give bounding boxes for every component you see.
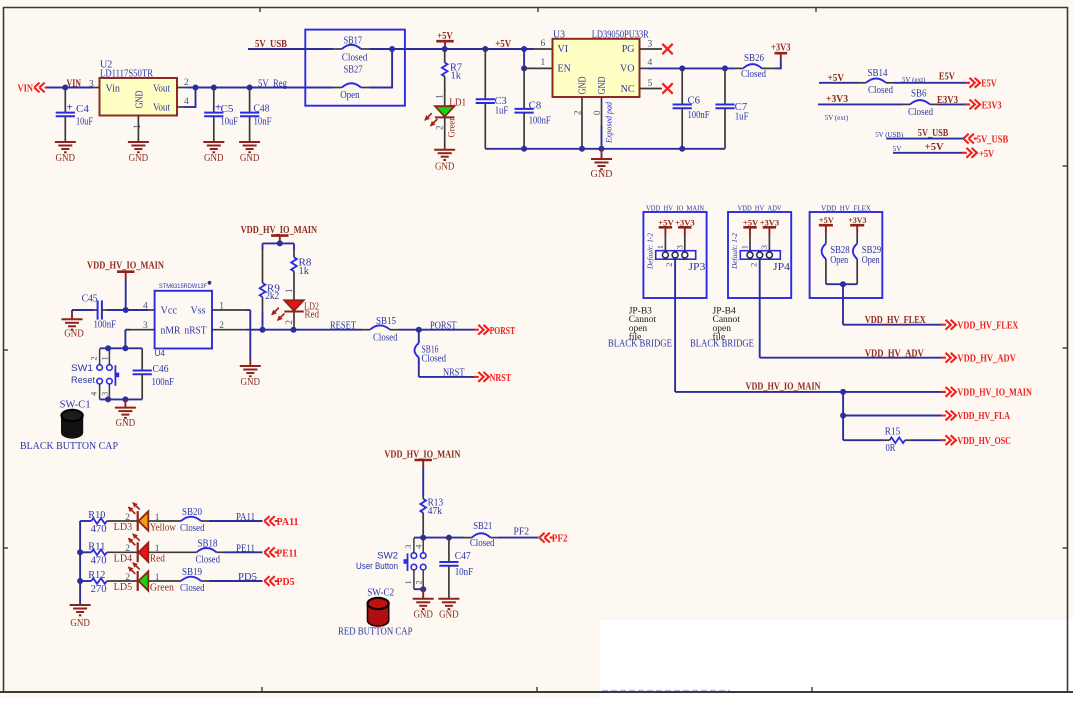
- solder bridge SB21 Closed: [470, 521, 495, 549]
- LED LD3 Yellow: [107, 503, 177, 534]
- node C8 top junction: [521, 46, 527, 52]
- svg-text:VDD_HV_IO_MAIN: VDD_HV_IO_MAIN: [87, 260, 165, 271]
- selection box SB28/SB29: [810, 204, 883, 298]
- svg-text:100nF: 100nF: [688, 110, 710, 121]
- selection box JP4: [728, 204, 791, 298]
- net label VDD_HV_IO_MAIN bus: [746, 382, 822, 393]
- svg-text:3: 3: [89, 79, 94, 89]
- svg-text:+3V3: +3V3: [675, 217, 695, 227]
- net label PE11: [236, 543, 255, 554]
- svg-text:+5V: +5V: [979, 149, 994, 160]
- svg-text:2: 2: [89, 356, 99, 360]
- svg-text:3: 3: [648, 39, 653, 49]
- svg-text:RESET: RESET: [330, 320, 356, 331]
- svg-text:3: 3: [759, 245, 769, 249]
- wire VDD_HV_ADV: [760, 259, 942, 358]
- node VO C7 junction: [722, 65, 728, 71]
- U4 pin 2 nRST wire: [212, 321, 370, 331]
- net label +3V3 row2: [826, 94, 848, 105]
- svg-text:PE11: PE11: [236, 543, 255, 554]
- svg-text:R10: R10: [88, 510, 105, 521]
- power +5V: [436, 31, 453, 49]
- svg-text:RED BUTTON CAP: RED BUTTON CAP: [338, 627, 413, 638]
- svg-text:+3V3: +3V3: [760, 217, 780, 227]
- svg-text:EN: EN: [558, 64, 571, 75]
- svg-text:Closed: Closed: [342, 52, 368, 63]
- node R9 reset junction: [260, 327, 266, 333]
- svg-text:270: 270: [91, 584, 107, 595]
- solder bridge SB18 Closed: [149, 538, 221, 565]
- svg-text:GND: GND: [116, 418, 136, 429]
- net label 5V (USB): [875, 130, 903, 139]
- solder bridge SB28 Open: [822, 244, 850, 267]
- svg-text:+3V3: +3V3: [771, 42, 791, 53]
- node C3 junction: [482, 46, 488, 52]
- svg-text:3: 3: [403, 545, 413, 549]
- svg-text:GND: GND: [204, 153, 224, 164]
- svg-text:GND: GND: [70, 618, 90, 629]
- svg-text:1k: 1k: [299, 266, 310, 277]
- node nMR junction: [122, 345, 128, 351]
- svg-text:VDD_HV_FLEX: VDD_HV_FLEX: [957, 321, 1018, 332]
- svg-text:SW2: SW2: [377, 550, 398, 561]
- solder bridge SB19 Closed: [149, 567, 205, 594]
- node R13 junction: [420, 535, 426, 541]
- label Default 1-2 JP4: [730, 233, 739, 270]
- port VIN: [18, 83, 48, 95]
- svg-text:GND: GND: [413, 610, 433, 621]
- svg-text:R15: R15: [885, 426, 901, 437]
- svg-text:E3V3: E3V3: [937, 95, 958, 106]
- pin 3 of U2: [89, 79, 94, 89]
- wire VDD_HV_FLEX: [843, 284, 942, 325]
- svg-text:5V: 5V: [893, 144, 903, 153]
- svg-text:Vcc: Vcc: [161, 306, 178, 317]
- node R12 junction: [77, 578, 83, 584]
- svg-text:GND: GND: [240, 153, 260, 164]
- svg-text:5V_Reg: 5V_Reg: [258, 78, 287, 89]
- svg-text:Open: Open: [830, 255, 848, 266]
- image placeholder JP-B3: [629, 307, 657, 343]
- net label VIN: [67, 78, 82, 89]
- svg-text:+5V: +5V: [819, 215, 835, 225]
- node EN junction: [521, 65, 527, 71]
- svg-text:BLACK BRIDGE: BLACK BRIDGE: [608, 339, 672, 350]
- svg-text:VDD_HV_ADV: VDD_HV_ADV: [957, 353, 1016, 364]
- ground for C4: [55, 142, 76, 164]
- node PORST junction: [416, 327, 422, 333]
- power +5V in JP4: [743, 217, 759, 250]
- svg-text:5: 5: [648, 79, 653, 89]
- LD1 cathode lead: [444, 117, 446, 150]
- svg-text:Vout: Vout: [153, 84, 170, 95]
- svg-text:GND: GND: [439, 610, 459, 621]
- svg-text:1: 1: [655, 245, 665, 249]
- svg-text:1k: 1k: [451, 70, 462, 81]
- svg-text:GND: GND: [64, 329, 84, 340]
- svg-text:JP3: JP3: [688, 262, 705, 273]
- resistor R9 2k2: [260, 250, 280, 330]
- U3 pin 4 VO wire: [640, 58, 744, 68]
- port PF2: [539, 533, 567, 545]
- power +5V in JP3: [658, 217, 674, 250]
- svg-text:BLACK BRIDGE: BLACK BRIDGE: [690, 339, 754, 350]
- svg-text:2: 2: [284, 320, 294, 325]
- svg-text:PG: PG: [622, 44, 635, 55]
- net label +5V row1: [828, 73, 845, 84]
- wire 5V_Reg: [196, 87, 342, 89]
- U3 pin 6 stub: [541, 39, 546, 49]
- regulator U3 LD39050PU33R: [553, 29, 650, 97]
- svg-text:VDD_HV_FLEX: VDD_HV_FLEX: [821, 204, 872, 213]
- node SW2 GND junction: [420, 586, 426, 592]
- power +3V3 in flex box: [848, 215, 867, 244]
- port VDD_HV_OSC: [941, 435, 1011, 447]
- net label +5V row4: [925, 142, 945, 153]
- svg-text:Closed: Closed: [422, 354, 447, 365]
- svg-text:Open: Open: [862, 255, 880, 266]
- port E5V: [965, 78, 997, 90]
- svg-text:GND: GND: [578, 77, 589, 95]
- svg-text:5V_USB: 5V_USB: [918, 128, 949, 139]
- svg-text:SW1: SW1: [71, 363, 93, 374]
- svg-text:GND: GND: [129, 153, 149, 164]
- solder bridge SB29 Open: [853, 244, 881, 267]
- svg-text:R11: R11: [88, 542, 105, 553]
- svg-text:VDD_HV_ADV: VDD_HV_ADV: [865, 348, 925, 359]
- port +5V output: [962, 148, 995, 160]
- node U3 GND junction: [579, 146, 585, 152]
- capacitor C5: [204, 89, 238, 142]
- svg-text:5V (ext): 5V (ext): [825, 113, 849, 122]
- capacitor C48: [240, 89, 272, 142]
- svg-text:1: 1: [219, 301, 224, 311]
- svg-text:10uF: 10uF: [221, 116, 239, 127]
- wire +5V to SB14: [819, 82, 866, 84]
- net label +5V near U3: [495, 39, 512, 50]
- svg-text:Vss: Vss: [191, 306, 206, 317]
- svg-text:0: 0: [592, 110, 602, 115]
- resistor R13 47k: [420, 496, 443, 538]
- capacitor C6: [673, 69, 710, 149]
- svg-text:GND: GND: [135, 91, 146, 109]
- svg-text:Closed: Closed: [470, 538, 495, 549]
- svg-text:LD5: LD5: [114, 582, 133, 593]
- node SW1 top junction: [105, 345, 111, 351]
- capacitor C45: [72, 294, 148, 331]
- node R7 junction: [442, 46, 448, 52]
- svg-text:GND: GND: [435, 161, 455, 172]
- capacitor C4: [56, 89, 94, 142]
- selection box JP3: [643, 204, 706, 298]
- svg-text:PF2: PF2: [514, 527, 530, 538]
- wire VIN to U2: [47, 87, 100, 89]
- resistor R12 270: [80, 570, 107, 595]
- U3 pin 2 GND lead: [573, 97, 583, 148]
- svg-text:VIN: VIN: [67, 78, 82, 89]
- svg-text:PA11: PA11: [277, 517, 299, 528]
- svg-text:C6: C6: [688, 95, 701, 106]
- svg-text:1uF: 1uF: [495, 105, 509, 116]
- svg-text:VDD_HV_IO_MAIN: VDD_HV_IO_MAIN: [384, 449, 461, 460]
- ground rail under U3: [485, 148, 725, 150]
- wire VDD_HV_IO_MAIN bus: [675, 259, 941, 392]
- svg-text:Green: Green: [150, 582, 174, 593]
- svg-text:2: 2: [184, 78, 189, 88]
- svg-text:JP4: JP4: [773, 262, 790, 273]
- svg-text:E3V3: E3V3: [982, 101, 1002, 112]
- svg-text:+5V: +5V: [743, 217, 759, 227]
- ground for SW2: [413, 589, 434, 620]
- svg-text:0R: 0R: [886, 443, 896, 454]
- power +5V in flex box: [819, 215, 835, 244]
- button cap SW-C2: [367, 588, 394, 627]
- jumper header JP4: [740, 245, 791, 273]
- net label 5V_Reg: [258, 78, 287, 89]
- solder bridge SB26 Closed: [741, 53, 766, 80]
- monitor U4 STM6315RDW13F: [155, 281, 212, 358]
- svg-text:VDD_HV_FLA: VDD_HV_FLA: [957, 411, 1010, 422]
- U4 pin 3 nMR wire: [125, 321, 154, 348]
- regulator U2 LD1117S50TR: [100, 59, 178, 115]
- net label E5V: [939, 72, 956, 83]
- net label NRST: [443, 368, 465, 379]
- LED LD4 Red: [107, 534, 165, 565]
- svg-text:VO: VO: [620, 64, 634, 75]
- node C6 bottom junction: [679, 146, 685, 152]
- svg-text:6: 6: [541, 39, 546, 49]
- svg-text:U3: U3: [553, 29, 565, 40]
- label BLACK BUTTON CAP: [20, 441, 118, 452]
- ground for C48: [239, 142, 260, 164]
- solder bridge SB20 Closed: [149, 507, 205, 534]
- U2 pin 2 wire: [177, 78, 197, 88]
- svg-text:SB26: SB26: [744, 53, 764, 64]
- svg-text:1: 1: [434, 95, 444, 100]
- net label 5V row4: [893, 144, 903, 153]
- svg-text:PA11: PA11: [236, 512, 255, 523]
- svg-text:47k: 47k: [428, 506, 443, 517]
- svg-text:C47: C47: [455, 551, 471, 562]
- jumper header JP3: [655, 245, 706, 273]
- svg-text:PF2: PF2: [552, 534, 568, 545]
- wire down to SB16: [418, 330, 420, 343]
- U3 exposed pad lead: [592, 97, 614, 149]
- capacitor C3: [476, 50, 509, 149]
- LED LD2 Red: [272, 289, 319, 330]
- svg-text:VDD_HV_IO_MAIN: VDD_HV_IO_MAIN: [646, 204, 705, 213]
- U2 pin 4 wire: [177, 88, 196, 108]
- wire SB6 to E3V3 port: [930, 103, 966, 105]
- LED LD1 Green: [425, 95, 466, 138]
- svg-text:LD1: LD1: [449, 98, 466, 109]
- label RED BUTTON CAP: [338, 627, 413, 638]
- svg-text:Default: 1-2: Default: 1-2: [645, 233, 654, 270]
- solder bridge SB15 Closed: [370, 316, 398, 344]
- port VDD_HV_IO_MAIN: [941, 387, 1032, 399]
- net label 5V (ext) row2: [825, 113, 849, 122]
- port VDD_HV_ADV: [941, 353, 1016, 365]
- port PA11: [264, 516, 298, 528]
- net label PA11: [236, 512, 255, 523]
- ground for U3: [591, 149, 613, 180]
- svg-text:PD5: PD5: [277, 577, 295, 588]
- ground for C47: [438, 599, 459, 621]
- svg-text:VIN: VIN: [18, 84, 34, 95]
- wire +5V down to EN: [523, 49, 525, 68]
- svg-text:U4: U4: [155, 349, 166, 358]
- svg-text:100nF: 100nF: [94, 320, 117, 331]
- svg-text:2: 2: [749, 263, 759, 267]
- svg-text:1: 1: [133, 124, 143, 129]
- svg-text:Vin: Vin: [106, 84, 120, 95]
- U3 pin 1 stub: [526, 58, 553, 68]
- svg-text:SB15: SB15: [376, 316, 396, 327]
- svg-text:Green: Green: [446, 116, 456, 137]
- node power junction: [277, 240, 283, 246]
- svg-text:Closed: Closed: [373, 332, 398, 343]
- svg-text:10uF: 10uF: [76, 116, 93, 127]
- svg-text:1uF: 1uF: [735, 111, 749, 122]
- node VO C6 junction: [679, 65, 685, 71]
- capacitor C8: [515, 68, 552, 148]
- node C48 junction: [247, 85, 253, 91]
- ground for U4: [240, 359, 261, 389]
- LED LD5 Green: [107, 563, 174, 594]
- svg-text:SB17: SB17: [344, 36, 363, 47]
- node C8 bottom junction: [521, 146, 527, 152]
- button cap SW-C1: [60, 400, 91, 439]
- svg-text:C5: C5: [221, 104, 234, 115]
- svg-text:+3V3: +3V3: [848, 215, 867, 225]
- svg-text:VDD_HV_FLEX: VDD_HV_FLEX: [865, 315, 927, 326]
- svg-text:GND: GND: [597, 77, 608, 95]
- svg-text:1: 1: [100, 356, 110, 360]
- solder bridge SB17 Closed: [342, 36, 368, 64]
- svg-text:VDD_HV_IO_MAIN: VDD_HV_IO_MAIN: [746, 382, 822, 393]
- svg-text:PD5: PD5: [238, 572, 257, 583]
- node flex junction: [840, 281, 846, 287]
- power +3V3 in JP3: [675, 217, 695, 250]
- label Default 1-2 JP3: [645, 233, 654, 270]
- net label VDD_HV_FLEX: [865, 315, 927, 326]
- wire SB17 to +5V node: [361, 48, 553, 50]
- wire +5V port: [893, 152, 963, 154]
- net label E3V3: [937, 95, 958, 106]
- node exposed pad junction: [599, 146, 605, 152]
- wire LED bank GND bus: [79, 521, 81, 604]
- power VDD_HV_IO_MAIN at R8: [241, 225, 318, 244]
- resistor R7 1k: [442, 50, 462, 106]
- wire SW2 rail: [414, 537, 472, 539]
- svg-text:SB27: SB27: [344, 65, 363, 76]
- U2 pin 1 GND lead: [133, 116, 143, 143]
- svg-text:2: 2: [219, 321, 224, 331]
- svg-text:2: 2: [664, 263, 674, 267]
- svg-text:C8: C8: [529, 100, 542, 111]
- svg-text:SB18: SB18: [198, 538, 218, 549]
- svg-text:1: 1: [284, 289, 294, 294]
- svg-text:Closed: Closed: [196, 554, 221, 565]
- wire 5V_USB port: [886, 138, 963, 140]
- svg-text:SB19: SB19: [182, 567, 202, 578]
- svg-text:Closed: Closed: [908, 107, 933, 118]
- svg-text:VI: VI: [558, 44, 569, 55]
- port VDD_HV_FLEX: [941, 320, 1019, 332]
- svg-text:nRST: nRST: [185, 326, 207, 337]
- svg-text:C4: C4: [76, 104, 89, 115]
- svg-text:PORST: PORST: [430, 320, 457, 331]
- svg-text:Red: Red: [305, 310, 320, 321]
- wire 5V_USB: [248, 48, 342, 50]
- svg-text:SB14: SB14: [868, 68, 888, 79]
- net label 5V (ext) row1: [902, 75, 926, 84]
- svg-text:100nF: 100nF: [529, 115, 551, 126]
- resistor R15 0R: [884, 426, 942, 454]
- port VDD_HV_FLA: [941, 411, 1010, 423]
- solder bridge SB16 Closed: [415, 343, 447, 365]
- svg-text:C46: C46: [153, 364, 169, 375]
- svg-text:3: 3: [100, 392, 110, 396]
- ground for LED bank: [70, 604, 91, 629]
- svg-text:LD4: LD4: [114, 553, 133, 564]
- wire PD5: [201, 580, 263, 582]
- wire VDD_HV_FLA: [843, 392, 941, 416]
- power +3V3 in JP4: [760, 217, 780, 250]
- port E3V3: [965, 100, 1002, 112]
- power VDD_HV_IO_MAIN at R13: [384, 449, 461, 496]
- svg-text:Reset: Reset: [71, 375, 95, 386]
- wire PF2: [491, 537, 539, 539]
- net label RESET: [330, 320, 356, 331]
- wire PE11: [217, 551, 263, 553]
- node IO_MAIN junction: [840, 389, 846, 395]
- svg-text:LD3: LD3: [114, 522, 133, 533]
- net label 5V_USB row3: [918, 128, 949, 139]
- svg-text:NRST: NRST: [490, 373, 512, 384]
- capacitor C46: [133, 348, 175, 399]
- svg-text:C48: C48: [254, 103, 270, 114]
- image placeholder JP-B4: [713, 307, 741, 343]
- svg-text:VDD_HV_ADV: VDD_HV_ADV: [738, 204, 782, 213]
- switch SW2 User Button: [356, 538, 426, 589]
- node SB17 output junction: [389, 46, 395, 52]
- svg-text:2k2: 2k2: [265, 291, 279, 302]
- svg-text:4: 4: [184, 97, 189, 107]
- svg-text:SB20: SB20: [182, 507, 202, 518]
- ground for U2: [128, 142, 149, 164]
- svg-text:NC: NC: [621, 84, 635, 95]
- net label PORST: [430, 320, 457, 331]
- svg-text:2: 2: [573, 111, 583, 116]
- net label PF2: [514, 527, 530, 538]
- solder bridge SB27 Open: [340, 65, 362, 101]
- svg-text:VDD_HV_OSC: VDD_HV_OSC: [957, 436, 1011, 447]
- node C5 junction: [211, 85, 217, 91]
- svg-text:nMR: nMR: [161, 326, 181, 337]
- switch SW1 Reset: [71, 348, 142, 399]
- wire R8 R9 top: [263, 243, 295, 250]
- svg-text:Closed: Closed: [180, 583, 205, 594]
- resistor R10 470: [80, 510, 107, 535]
- U4 pin 1 Vss wire to GND: [212, 301, 250, 358]
- svg-text:Default: 1-2: Default: 1-2: [730, 233, 739, 270]
- svg-text:470: 470: [91, 555, 107, 566]
- svg-text:NRST: NRST: [443, 368, 465, 379]
- port 5V_USB input: [963, 134, 1008, 146]
- ground for SW1: [115, 399, 136, 429]
- selection box SB17/SB27: [305, 30, 405, 106]
